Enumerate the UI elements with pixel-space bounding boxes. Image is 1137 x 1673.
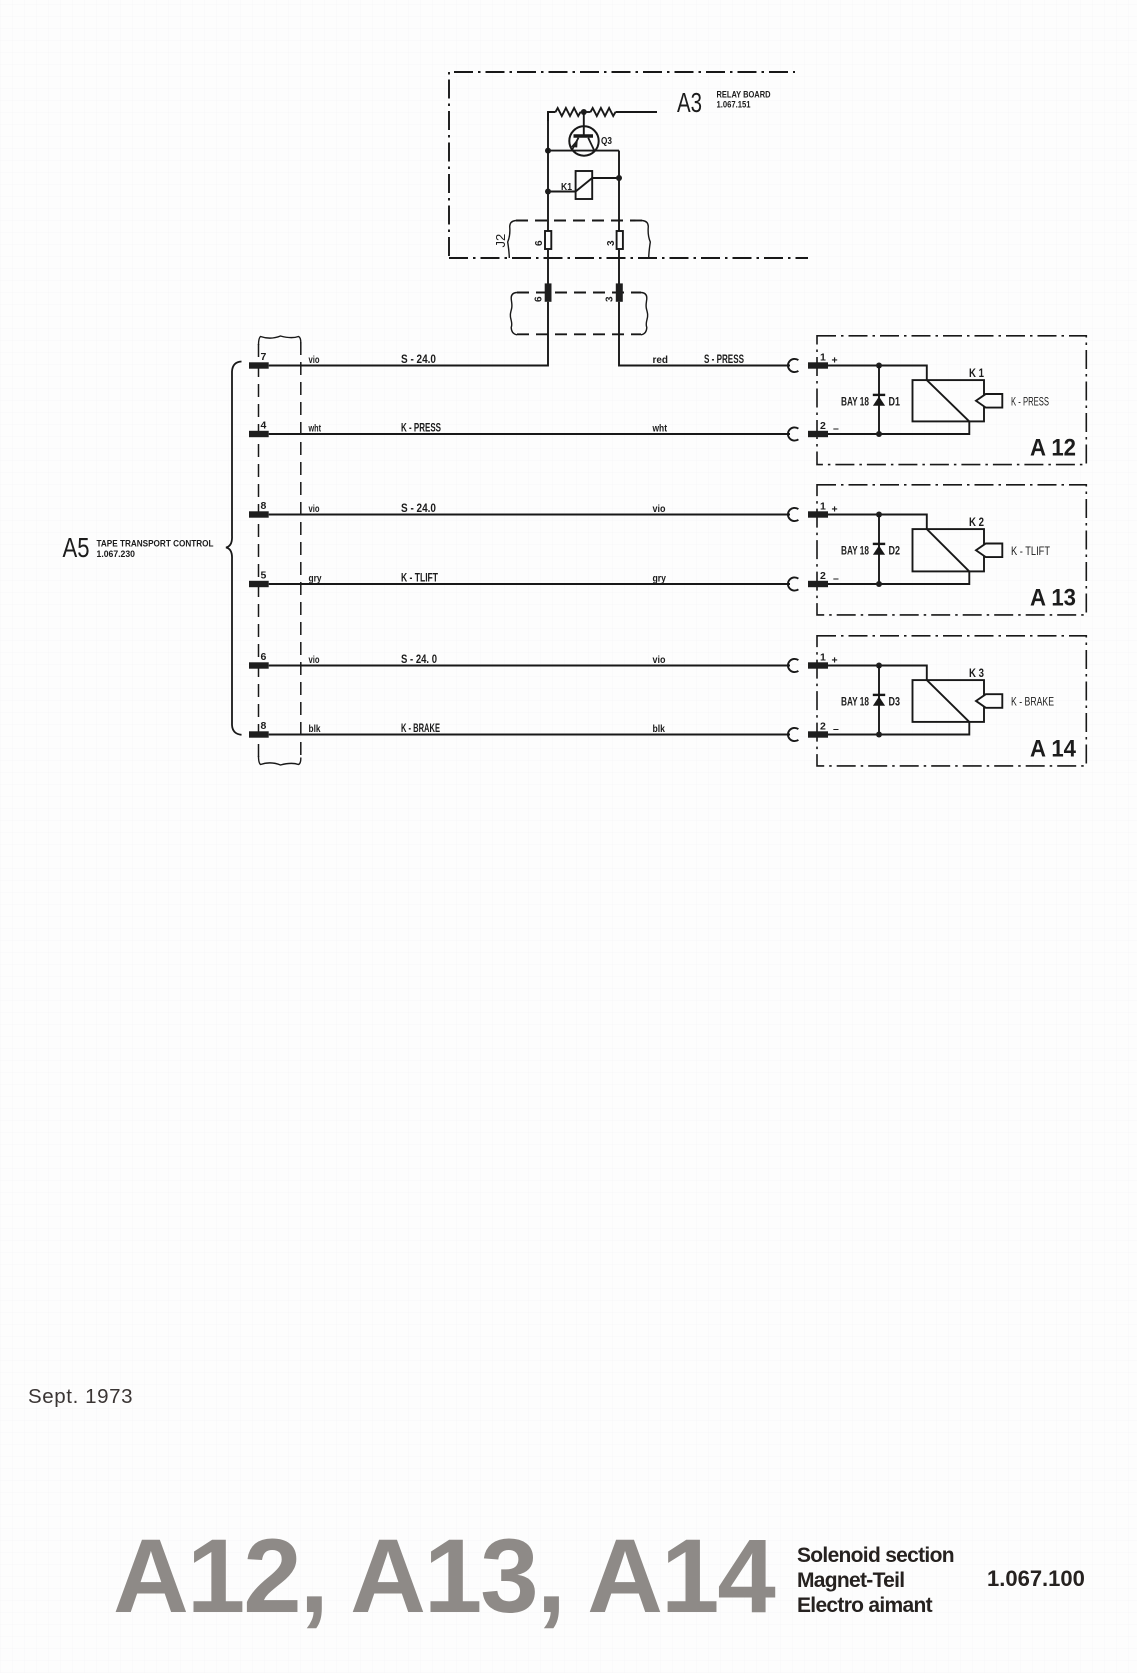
- svg-text:J2: J2: [493, 234, 508, 248]
- svg-text:1: 1: [820, 501, 826, 513]
- wire: cable pin 6 down to S-24.0 row: [269, 302, 548, 366]
- svg-text:Q3: Q3: [601, 135, 612, 147]
- svg-text:3: 3: [605, 296, 616, 302]
- A5 pin 4: [249, 431, 269, 437]
- svg-text:K1: K1: [561, 181, 572, 193]
- svg-text:2: 2: [820, 420, 826, 432]
- svg-text:1: 1: [820, 652, 826, 664]
- wire: emitter-collector rail: [548, 150, 619, 152]
- svg-text:–: –: [833, 423, 839, 435]
- node: [876, 363, 882, 369]
- A5 pin 8: [249, 511, 269, 517]
- node: [545, 148, 551, 154]
- svg-text:8: 8: [261, 500, 267, 512]
- diode D1: [873, 366, 885, 435]
- svg-text:+: +: [832, 655, 838, 667]
- svg-text:+: +: [832, 504, 838, 516]
- label Solenoid section: [797, 1543, 954, 1618]
- svg-text:1.067.230: 1.067.230: [97, 549, 136, 560]
- wire: relay right lead: [592, 177, 619, 179]
- wire: K-PRESS row: [269, 433, 790, 435]
- A5 pin 7: [249, 362, 269, 368]
- svg-text:wht: wht: [652, 424, 668, 435]
- wire: J2 pin 6 to cable pin 6: [547, 250, 549, 284]
- svg-text:K - PRESS: K - PRESS: [1011, 397, 1049, 409]
- A5 pin 6: [249, 662, 269, 668]
- wire: [828, 666, 927, 681]
- solenoid K2: [828, 529, 1002, 584]
- wire: S-24.0 row to A14: [269, 665, 790, 667]
- svg-text:vio: vio: [309, 504, 320, 515]
- solenoid board A14 outline: [817, 636, 1086, 766]
- label 1.067.100: [987, 1566, 1085, 1592]
- svg-text:7: 7: [261, 351, 267, 363]
- transistor Q3: [569, 126, 598, 155]
- label Sept. 1973: [28, 1385, 133, 1409]
- wire: left vertical to J2 pin 6: [547, 112, 549, 231]
- svg-text:BAY 18: BAY 18: [841, 697, 869, 709]
- A13 pin 1: [808, 511, 828, 517]
- svg-text:S - PRESS: S - PRESS: [704, 354, 744, 366]
- svg-text:6: 6: [261, 651, 267, 663]
- svg-text:D3: D3: [889, 697, 901, 709]
- svg-text:5: 5: [261, 570, 267, 582]
- svg-text:2: 2: [820, 570, 826, 582]
- relay K1: [576, 171, 593, 199]
- connector J2 pin 3: [617, 231, 623, 249]
- svg-text:K 1: K 1: [969, 368, 984, 380]
- wire: cable pin 3 down to S-PRESS row: [619, 302, 790, 366]
- svg-text:3: 3: [606, 240, 617, 246]
- svg-text:D2: D2: [889, 546, 901, 558]
- svg-text:gry: gry: [309, 574, 322, 585]
- wire: [828, 515, 927, 530]
- wire: A3 top rail: [548, 112, 556, 121]
- connector J2 outline: [508, 221, 651, 259]
- connector J2 pin 6: [545, 231, 551, 249]
- wire: base lead: [583, 112, 585, 135]
- svg-text:–: –: [833, 573, 839, 585]
- A13 pin 2: [808, 581, 828, 587]
- svg-text:vio: vio: [653, 504, 666, 515]
- svg-text:BAY 18: BAY 18: [841, 397, 869, 409]
- resistor R-b: [591, 108, 616, 116]
- node: [616, 175, 622, 181]
- svg-text:2: 2: [820, 721, 826, 733]
- node: [876, 581, 882, 587]
- svg-text:K 3: K 3: [969, 668, 984, 680]
- svg-text:1: 1: [820, 352, 826, 364]
- svg-text:BAY 18: BAY 18: [841, 546, 869, 558]
- svg-text:A 12: A 12: [1030, 435, 1076, 462]
- relay board A3 outline: [449, 72, 808, 258]
- svg-text:A 14: A 14: [1030, 736, 1077, 763]
- connector socket arcs: [788, 359, 798, 741]
- node: [545, 189, 551, 195]
- A5 pin 8b: [249, 731, 269, 737]
- cable connector outline: [510, 293, 647, 335]
- svg-text:K 2: K 2: [969, 517, 984, 529]
- node: [876, 732, 882, 738]
- title A12, A13, A14: [113, 1517, 774, 1637]
- diode D3: [873, 666, 885, 735]
- wire: [828, 366, 927, 381]
- svg-text:TAPE TRANSPORT CONTROL: TAPE TRANSPORT CONTROL: [97, 539, 214, 550]
- svg-text:K - TLIFT: K - TLIFT: [1011, 546, 1050, 558]
- svg-text:A3: A3: [677, 87, 702, 118]
- A5 board edge (torn dashed): [259, 336, 301, 765]
- wire: [581, 111, 591, 113]
- svg-text:vio: vio: [653, 655, 666, 666]
- svg-text:1.067.151: 1.067.151: [717, 100, 752, 111]
- A12 pin 1: [808, 362, 828, 368]
- solenoid K3: [828, 680, 1002, 734]
- svg-text:blk: blk: [653, 724, 666, 735]
- svg-text:D1: D1: [889, 397, 901, 409]
- svg-text:blk: blk: [309, 724, 321, 735]
- node: [876, 512, 882, 518]
- svg-text:K - BRAKE: K - BRAKE: [1011, 697, 1054, 709]
- diode D2: [873, 515, 885, 585]
- node: [876, 431, 882, 437]
- cable connector pin 3: [616, 283, 623, 301]
- svg-text:S - 24.0: S - 24.0: [401, 354, 436, 366]
- A12 pin 2: [808, 431, 828, 437]
- A14 pin 2: [808, 731, 828, 737]
- cable connector pin 6: [545, 283, 552, 301]
- svg-text:6: 6: [534, 240, 545, 246]
- svg-text:K - PRESS: K - PRESS: [401, 423, 441, 435]
- resistor R-a: [556, 108, 581, 116]
- A14 pin 1: [808, 662, 828, 668]
- svg-text:A5: A5: [63, 532, 90, 563]
- svg-text:+: +: [832, 355, 838, 367]
- wire: right vertical to J2 pin 3: [618, 151, 620, 231]
- wire: K-TLIFT row: [269, 583, 790, 585]
- svg-text:K - BRAKE: K - BRAKE: [401, 723, 440, 735]
- svg-text:S - 24.0: S - 24.0: [401, 503, 436, 515]
- svg-text:8: 8: [261, 720, 267, 732]
- svg-text:vio: vio: [309, 355, 320, 366]
- node: base junction: [581, 109, 587, 115]
- solenoid board A12 outline: [817, 336, 1086, 465]
- wire: J2 pin 3 to cable pin 3: [618, 250, 620, 284]
- svg-text:vio: vio: [309, 655, 320, 666]
- svg-text:A 13: A 13: [1030, 585, 1076, 612]
- svg-text:–: –: [833, 723, 839, 735]
- wire: [616, 111, 658, 113]
- svg-text:6: 6: [534, 296, 545, 302]
- solenoid board A13 outline: [817, 485, 1086, 615]
- svg-text:red: red: [653, 355, 669, 366]
- wire: S-24.0 row to A13: [269, 514, 790, 516]
- svg-text:4: 4: [261, 420, 267, 432]
- solenoid K1: [828, 380, 1002, 434]
- svg-text:S - 24. 0: S - 24. 0: [401, 654, 437, 666]
- A5 pin 5: [249, 581, 269, 587]
- wire: K-BRAKE row: [269, 734, 790, 736]
- svg-text:wht: wht: [308, 424, 322, 435]
- node: [876, 663, 882, 669]
- wire: relay left lead: [548, 191, 576, 193]
- svg-text:K - TLIFT: K - TLIFT: [401, 573, 438, 585]
- brace A5: [226, 362, 242, 735]
- svg-text:gry: gry: [653, 574, 667, 585]
